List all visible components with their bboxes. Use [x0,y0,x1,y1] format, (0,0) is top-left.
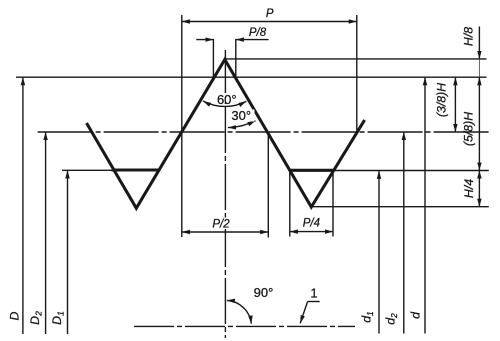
label D2 [28,311,44,325]
label d2 [384,313,400,325]
dimension P/2: extension line right [267,132,269,238]
dimension H/4: dimension line with arrows [478,170,480,206]
dimension P/2: dimension line with arrows [182,231,268,233]
right groove root flat [289,169,334,172]
thread profile zigzag outline [87,60,365,209]
label 1 [310,286,317,301]
diameter d2 dimension line [403,132,405,334]
dimension (3/8)H: dimension line with arrows [454,77,456,132]
dimension (5/8)H: dimension line with arrows [478,77,480,170]
label 30 degrees [230,108,255,123]
svg-text:D: D [7,311,21,320]
diameter D1 dimension line [67,170,69,334]
svg-text:60°: 60° [217,92,237,107]
label H/4 [462,179,476,198]
svg-text:H/8: H/8 [462,27,476,46]
vertical centerline (dash-dot) [224,50,226,338]
label d1 [360,311,376,323]
left groove root flat [112,168,160,171]
root tip reference line [313,206,489,208]
svg-text:P/8: P/8 [249,27,267,39]
label (5/8)H [461,112,475,146]
90 degree axis angle arc with arrows [227,300,252,323]
svg-text:30°: 30° [231,108,251,123]
thread axis (dash-dot) [134,325,355,327]
dimension P/8: left outside arrow [196,39,213,41]
label P [266,8,274,20]
dimension H/8: upper outside arrow [478,27,480,59]
svg-text:1: 1 [310,286,317,301]
dimension P/4: extension line right [332,171,334,237]
major diameter line (D, d) [16,76,487,78]
minor diameter line right (d1) [332,170,489,172]
svg-text:H/4: H/4 [462,179,476,198]
part callout 1: leader arrow [300,302,307,324]
svg-text:d: d [408,311,422,319]
dimension P: extension line left [181,15,183,237]
pitch line (dash-dot) [38,131,489,133]
diameter d1 dimension line [378,171,380,334]
label P/2 [209,218,233,231]
crest apex reference line [225,58,487,60]
part callout 1: leader underline [308,301,320,303]
label (3/8)H [435,83,449,117]
dimension P: extension line right [356,15,358,131]
diameter D2 dimension line [45,132,47,334]
label H/8 [462,27,476,46]
svg-text:P/4: P/4 [303,217,320,229]
dimension P/8: right outside arrow [236,39,269,41]
dimension P/8: extension line left [212,39,214,77]
svg-text:(3/8)H: (3/8)H [435,83,449,117]
label d [408,311,422,319]
label 90 degrees [254,285,274,300]
svg-text:P: P [266,8,274,20]
60 degree angle arc with arrows [203,101,246,106]
minor diameter line left (D1) [62,169,113,171]
label D1 [50,311,66,325]
dimension P: dimension line with arrows [182,21,357,23]
label D [7,311,21,320]
label P/8 [249,27,267,39]
dimension P/4: extension line left [289,171,291,237]
diameter d dimension line [424,77,426,333]
dimension P/8: extension line right [235,39,237,77]
svg-text:90°: 90° [254,285,274,300]
svg-text:(5/8)H: (5/8)H [461,112,475,146]
label P/4 [303,217,320,229]
svg-text:P/2: P/2 [212,219,230,231]
diameter D dimension line [22,77,24,334]
dimension P/4: dimension line with arrows [290,231,333,233]
30 degree half-angle arc with arrows [228,121,256,128]
label 60 degrees [214,92,241,107]
dimension H/8: connector between reference lines [478,59,480,77]
